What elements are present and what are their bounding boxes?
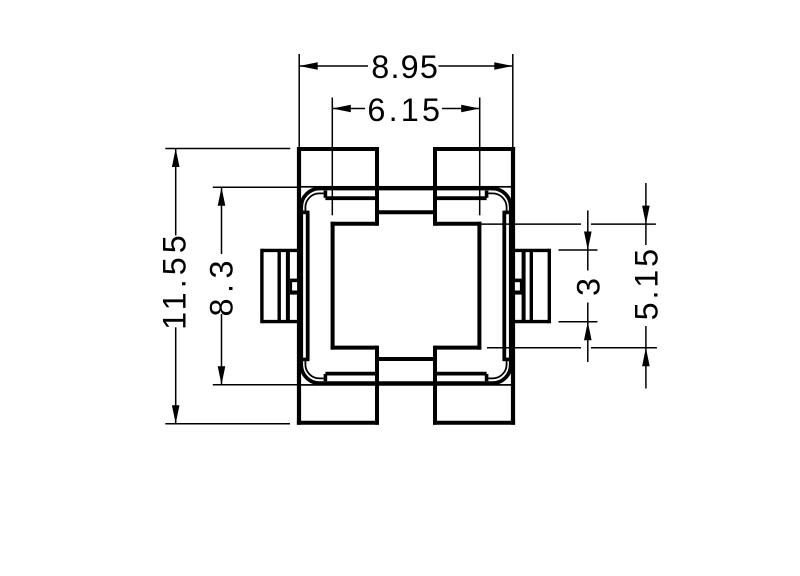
dim 5.15 extension lines (480, 223, 581, 225)
opening bridge top (377, 210, 435, 214)
dim 11.55 line (175, 149, 177, 236)
arrowhead 8.3 bottom (218, 366, 226, 385)
arrowhead 5.15 bottom (outside, pointing up) (642, 348, 650, 367)
arrowhead 3 bottom (outside, pointing up) (584, 322, 592, 341)
left spine (tab + body left edge) (297, 147, 301, 425)
corner tab bottom-right (433, 421, 515, 425)
cover seam jog dash left-top (303, 211, 310, 215)
dim 5.15 line (645, 183, 647, 224)
cover seam jog dash right-bottom (503, 358, 510, 362)
opening square top edges (331, 222, 377, 226)
cover skirt edge bottom-left (325, 372, 377, 376)
dim 8.3 extension lines (213, 186, 298, 188)
cover outer rounded rect (301, 189, 511, 384)
cover seam jog dash top-right (485, 191, 489, 198)
arrowhead 6.15 left (332, 105, 351, 113)
cover seam jog dash top-left (324, 191, 328, 198)
right spine (tab + body right edge) (511, 147, 515, 425)
arrowhead 8.3 top (218, 187, 226, 206)
svg-text:6.15: 6.15 (367, 92, 443, 128)
side tab right (513, 249, 549, 252)
side tab left (262, 249, 299, 252)
svg-text:11.55: 11.55 (157, 231, 193, 330)
arrowhead 11.55 top (172, 149, 180, 168)
cover skirt edge right (502, 212, 506, 359)
dim 3 line (587, 210, 589, 250)
side tab right notch (513, 279, 522, 295)
arrowhead 3 top (outside, pointing down) (584, 232, 592, 251)
cover seam jog dash bottom-left (324, 374, 328, 381)
corner tab bottom-left (297, 421, 379, 425)
dim 8.3 line (221, 187, 223, 254)
body outline thin rect (299, 187, 513, 385)
cover inner corner arc bottom-right (489, 361, 507, 379)
cover seam jog dash bottom-right (485, 374, 489, 381)
cover skirt edge bottom-right (435, 372, 487, 376)
dim 6.15 line (332, 108, 365, 110)
dim 8.95 line (299, 65, 368, 67)
dim 3 extension lines (559, 249, 598, 251)
corner tab top-left (297, 147, 379, 151)
dim 8.95 extension lines (298, 54, 300, 147)
arrowhead 11.55 bottom (172, 405, 180, 424)
arrowhead 5.15 top (outside, pointing down) (642, 206, 650, 225)
cover inner corner arc bottom-left (305, 361, 323, 379)
arrowhead 8.95 right (494, 62, 513, 70)
svg-text:5.15: 5.15 (629, 246, 665, 320)
arrowhead 6.15 right (461, 105, 480, 113)
svg-text:8.3: 8.3 (204, 255, 240, 317)
svg-text:8.95: 8.95 (371, 49, 439, 85)
cover inner corner arc top-right (489, 193, 507, 211)
cover inner corner arc top-left (305, 193, 323, 211)
opening bridge bottom (377, 357, 435, 361)
opening square bottom edges (331, 346, 377, 350)
cover seam jog dash right-top (503, 211, 510, 215)
cover skirt edge top-right (435, 196, 487, 200)
cover skirt edge top-left (325, 196, 377, 200)
cover seam jog dash left-bottom (303, 358, 310, 362)
corner tab top-right (433, 147, 515, 151)
opening square right edge (477, 222, 481, 350)
arrowhead 8.95 left (299, 62, 318, 70)
side tab left notch (290, 279, 299, 295)
dim 6.15 extension lines (331, 98, 333, 216)
dim 11.55 extension lines (165, 148, 290, 150)
svg-text:3: 3 (570, 278, 606, 296)
opening square left edge (331, 222, 335, 350)
cover skirt edge left (306, 212, 310, 359)
